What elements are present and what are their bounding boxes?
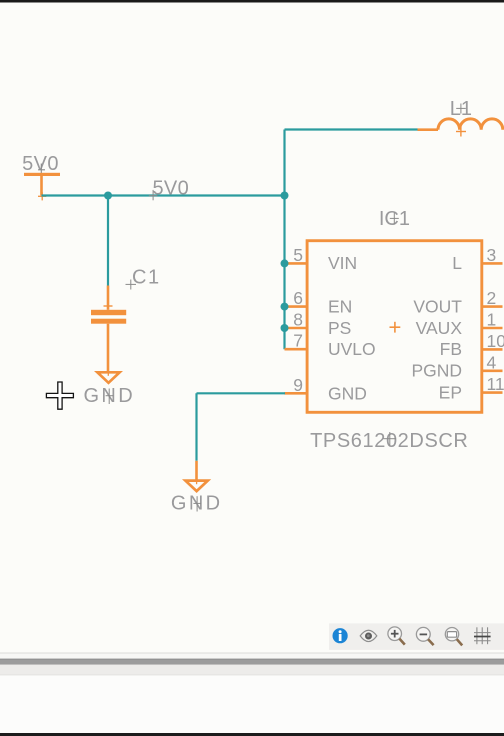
svg-text:L: L: [452, 253, 462, 273]
svg-text:PS: PS: [328, 318, 351, 338]
pin 7 UVLO stub: [285, 348, 307, 351]
pin cross at supply wire start: [38, 195, 46, 197]
svg-text:EP: EP: [439, 382, 462, 402]
top window border: [0, 0, 504, 3]
svg-text:1: 1: [487, 310, 497, 330]
icon eye: [360, 630, 377, 641]
svg-text:3: 3: [487, 245, 497, 265]
icon zoom out: [416, 627, 433, 645]
toolbar panel: [329, 623, 504, 650]
svg-text:EN: EN: [328, 296, 352, 316]
scrollbar track lower: [0, 665, 504, 676]
wire horizontal to inductor: [285, 128, 418, 130]
icon grid: [474, 627, 491, 644]
svg-text:UVLO: UVLO: [328, 339, 376, 359]
wire 5V0 horizontal: [42, 194, 286, 196]
svg-text:PGND: PGND: [411, 361, 462, 381]
junction at C1 branch: [104, 192, 112, 200]
junction at pin 8: [281, 324, 289, 332]
scrollbar region: [0, 653, 504, 654]
junction at pin 5: [281, 259, 289, 267]
svg-text:8: 8: [293, 310, 303, 330]
capacitor C1: [91, 267, 161, 372]
pin 8 PS stub: [285, 327, 307, 330]
ground GND2: [171, 461, 223, 515]
svg-text:4: 4: [487, 352, 497, 372]
svg-text:VAUX: VAUX: [416, 318, 463, 338]
svg-text:GND: GND: [328, 383, 367, 403]
svg-text:9: 9: [293, 375, 303, 395]
wire pin9 to GND2 vertical: [195, 393, 197, 461]
pin 3 L stub: [482, 262, 503, 265]
pin 4 PGND stub: [482, 369, 503, 372]
net label 5V0: [149, 178, 189, 201]
pin 1 VAUX stub: [482, 327, 503, 330]
svg-text:6: 6: [293, 288, 303, 308]
label IC1: [379, 208, 410, 230]
svg-text:10: 10: [487, 331, 504, 351]
svg-text:11: 11: [487, 374, 504, 394]
IC origin cross: [390, 322, 401, 333]
svg-text:2: 2: [487, 288, 497, 308]
pin 2 VOUT stub: [482, 305, 503, 308]
pin 9 GND stub: [285, 392, 307, 395]
pin 10 FB stub: [482, 348, 503, 351]
icon info: [333, 628, 348, 643]
supply symbol 5V0: [22, 153, 60, 196]
svg-text:FB: FB: [440, 339, 462, 359]
svg-text:C1: C1: [132, 267, 161, 289]
scrollbar thumb: [0, 659, 504, 665]
svg-text:7: 7: [293, 331, 303, 351]
pin 6 EN stub: [285, 305, 307, 308]
wire down to C1: [107, 196, 109, 286]
wire pin9 to GND2 horizontal: [197, 392, 286, 394]
op IC1 box: [307, 241, 482, 413]
ground GND1: [83, 368, 135, 407]
status area: [0, 675, 504, 733]
svg-text:5V0: 5V0: [22, 153, 59, 175]
pin 11 EP stub: [482, 391, 503, 394]
bottom window border: [0, 733, 504, 736]
svg-text:5: 5: [293, 245, 303, 265]
mouse cursor crosshair: [46, 382, 73, 409]
inductor L1: [418, 98, 503, 137]
wire vertical trunk to IC pins: [283, 130, 285, 350]
svg-text:VOUT: VOUT: [413, 296, 462, 316]
junction at pin 6: [281, 303, 289, 311]
value TPS61202DSCR: [310, 430, 468, 452]
svg-text:VIN: VIN: [328, 253, 357, 273]
icon zoom in: [388, 627, 405, 645]
icon zoom fit: [445, 628, 462, 646]
svg-text:5V0: 5V0: [153, 178, 190, 200]
pin 5 VIN stub: [285, 262, 307, 265]
junction at corner node: [281, 192, 289, 200]
